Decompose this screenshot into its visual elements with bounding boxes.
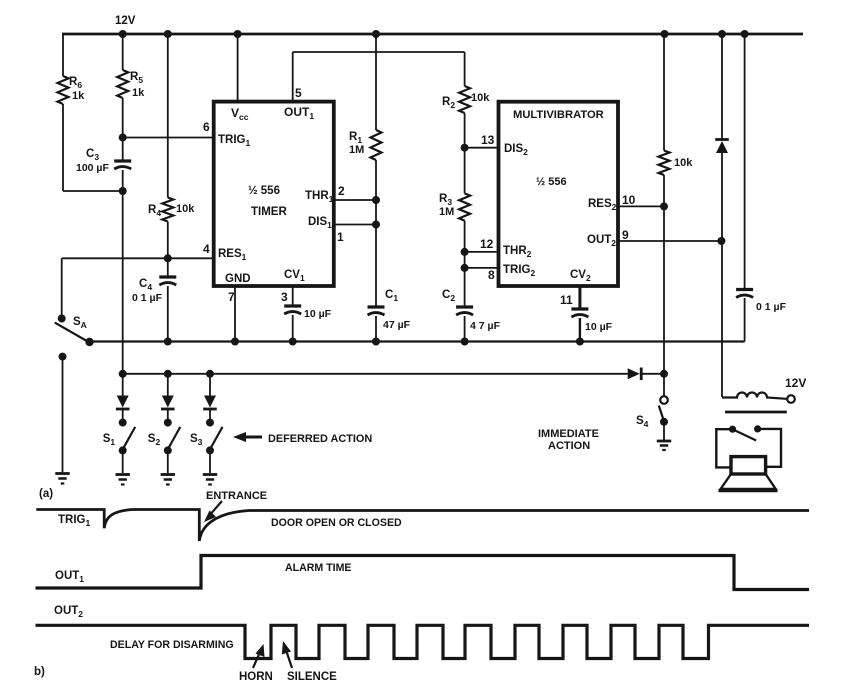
wire relay contact right to horn bbox=[758, 429, 781, 467]
svg-text:TIMER: TIMER bbox=[251, 206, 287, 218]
svg-text:½ 556: ½ 556 bbox=[248, 185, 280, 197]
pin number 4 bbox=[203, 242, 210, 256]
capacitor C4 bbox=[159, 277, 176, 285]
capacitor 0.1uF bbox=[736, 290, 753, 298]
wire OUT1 riser bbox=[292, 52, 294, 102]
waveform OUT2 bbox=[36, 625, 810, 658]
label SILENCE bbox=[287, 671, 337, 683]
wire R4 to RES node bbox=[167, 222, 169, 259]
junction top bus / diode D5 bbox=[718, 30, 726, 38]
junction C1 / ground bus bbox=[372, 338, 380, 346]
wire C3 bottom bbox=[122, 170, 124, 191]
label R2 bbox=[442, 96, 455, 110]
wire bus to diode D3 bbox=[209, 374, 211, 396]
wire S4 node to terminal bbox=[663, 374, 665, 396]
resistor R3 1M bbox=[459, 193, 470, 220]
wire TRIG1 bbox=[123, 137, 214, 139]
svg-text:8: 8 bbox=[488, 268, 495, 282]
label 10k right bbox=[674, 157, 693, 169]
wire R3 to THR2 node bbox=[464, 221, 466, 252]
label R4 bbox=[148, 204, 161, 218]
ground symbol S1 bbox=[116, 475, 130, 485]
pin number 10 bbox=[622, 193, 636, 207]
switch S1 top dot bbox=[119, 419, 127, 427]
junction GND / ground bus bbox=[231, 338, 239, 346]
label TRIG2 pin bbox=[503, 264, 535, 278]
wire CV1 to cap bbox=[292, 286, 294, 307]
svg-text:1M: 1M bbox=[439, 206, 454, 218]
switch S3 top dot bbox=[206, 419, 214, 427]
pin number 1 bbox=[337, 230, 344, 244]
wire TRIG2 bbox=[465, 267, 499, 269]
capacitor CV1 10uF bbox=[284, 306, 301, 314]
wire S3 to ground bbox=[209, 450, 211, 473]
junction top bus / R5 bbox=[119, 30, 127, 38]
label OUT1 pin bbox=[284, 105, 314, 121]
junction deferred bus D3 bbox=[206, 370, 214, 378]
diode D2 bbox=[161, 396, 175, 410]
label half-556 bbox=[248, 185, 280, 197]
pin number 11 bbox=[560, 293, 573, 307]
wire DIS1 bbox=[334, 224, 376, 226]
switch S3 blade bbox=[209, 427, 222, 451]
relay contact blade bbox=[733, 429, 757, 440]
wire RES1 corner down to SA bbox=[61, 258, 63, 318]
capacitor C3 bbox=[114, 161, 131, 169]
junction R4/C4 on RES1 wire bbox=[164, 254, 172, 262]
junction THR1 node bbox=[372, 196, 380, 204]
wire 10k to RES2 node bbox=[663, 175, 665, 206]
wire DIS2 bbox=[465, 147, 499, 149]
svg-text:4: 4 bbox=[203, 242, 210, 256]
svg-text:DOOR OPEN OR CLOSED: DOOR OPEN OR CLOSED bbox=[271, 517, 402, 529]
junction deferred bus D2 bbox=[164, 370, 172, 378]
junction deferred bus D1 bbox=[119, 370, 127, 378]
junction C2 / ground bus bbox=[461, 338, 469, 346]
label RES2 pin bbox=[588, 198, 617, 212]
label (b) bbox=[34, 666, 45, 678]
junction TRIG2 node bbox=[461, 264, 469, 272]
wire R1 to THR node bbox=[375, 160, 377, 200]
label R5 bbox=[130, 71, 143, 85]
junction C4 / ground bus bbox=[164, 338, 172, 346]
svg-text:0 1 µF: 0 1 µF bbox=[132, 292, 163, 304]
label DIS1 pin bbox=[308, 216, 332, 230]
svg-text:DEFERRED ACTION: DEFERRED ACTION bbox=[268, 433, 372, 445]
wire THR2 bbox=[465, 251, 499, 253]
svg-text:3: 3 bbox=[281, 290, 288, 304]
switch S4 open terminal bbox=[660, 396, 668, 404]
junction top bus / R1 bbox=[372, 30, 380, 38]
junction CV2 / ground bus bbox=[576, 338, 584, 346]
svg-text:ACTION: ACTION bbox=[548, 440, 590, 452]
label DELAY FOR DISARMING bbox=[110, 639, 234, 651]
diode D1 bbox=[116, 396, 130, 410]
junction top bus / R4 bbox=[164, 30, 172, 38]
pin number 13 bbox=[481, 133, 495, 147]
node 12V supply label bbox=[115, 15, 136, 27]
label S4 bbox=[636, 415, 649, 429]
label C2 value 47uF bbox=[470, 320, 501, 332]
label S1 bbox=[103, 433, 116, 447]
label C4 bbox=[139, 278, 152, 292]
svg-text:ENTRANCE: ENTRANCE bbox=[206, 490, 267, 502]
wire 0.1uF to ground bus bbox=[744, 298, 746, 342]
svg-text:10: 10 bbox=[622, 193, 636, 207]
wire ground bus bbox=[89, 340, 745, 342]
wire relay contact left to horn bbox=[716, 429, 732, 467]
switch S1 bottom dot bbox=[119, 446, 127, 454]
switch S3 bottom dot bbox=[206, 446, 214, 454]
horn cone mouth bbox=[719, 489, 778, 492]
arrow silence bbox=[282, 641, 292, 668]
svg-text:100 µF: 100 µF bbox=[76, 162, 109, 174]
resistor R2 10k bbox=[459, 86, 470, 113]
svg-text:DELAY FOR DISARMING: DELAY FOR DISARMING bbox=[110, 639, 234, 651]
wire OUT1 to R2 top bbox=[293, 51, 465, 53]
svg-text:ALARM TIME: ALARM TIME bbox=[285, 562, 352, 574]
svg-text:10k: 10k bbox=[674, 157, 693, 169]
junction top bus / 10k right bbox=[661, 30, 669, 38]
junction CV1 / ground bus bbox=[289, 338, 297, 346]
resistor R1 1M bbox=[371, 130, 382, 160]
svg-text:1M: 1M bbox=[349, 144, 364, 156]
svg-text:1: 1 bbox=[337, 230, 344, 244]
wire diode D2 to switch S2 bbox=[167, 410, 169, 423]
switch SA terminal dot bbox=[58, 315, 66, 323]
label THR2 pin bbox=[503, 245, 532, 259]
pin number 5 bbox=[295, 86, 302, 100]
label TIMER bbox=[251, 206, 287, 218]
label CV2 value 10uF bbox=[585, 321, 613, 333]
label R1 bbox=[349, 131, 362, 145]
wire OUT2 bbox=[618, 240, 721, 242]
diode D4 immediate bbox=[628, 368, 642, 381]
label OUT2 waveform bbox=[54, 605, 83, 619]
label R3 value 1M bbox=[439, 206, 454, 218]
wire RES2 node down to S4 bbox=[663, 206, 665, 373]
svg-text:1k: 1k bbox=[72, 90, 85, 102]
pin number 12 bbox=[480, 237, 494, 251]
junction SA pivot on ground bus bbox=[85, 338, 93, 346]
wire R2 riser bbox=[464, 52, 466, 86]
waveform OUT1 bbox=[36, 556, 810, 590]
svg-text:13: 13 bbox=[481, 133, 495, 147]
label C1 value 47uF bbox=[383, 319, 411, 331]
junction S4 node bbox=[660, 370, 668, 378]
ground symbol S3 bbox=[203, 475, 217, 485]
switch S4 bottom dot bbox=[660, 418, 668, 426]
svg-text:4 7 µF: 4 7 µF bbox=[470, 320, 501, 332]
wire bus to diode D1 bbox=[122, 374, 124, 396]
label S3 bbox=[190, 433, 203, 447]
resistor R4 10k bbox=[162, 198, 173, 222]
arrow deferred action bbox=[233, 432, 262, 442]
svg-text:b): b) bbox=[34, 666, 45, 678]
node relay 12V terminal bbox=[787, 395, 795, 403]
label RES1 pin bbox=[218, 248, 247, 262]
wire CV1 cap to bus bbox=[292, 315, 294, 342]
label ALARM TIME bbox=[285, 562, 352, 574]
label C3 bbox=[86, 148, 99, 162]
label ENTRANCE bbox=[206, 490, 267, 502]
wire CV2 cap to bus bbox=[579, 318, 581, 342]
wire THR1 bbox=[334, 199, 376, 201]
label R6 value 1k bbox=[72, 90, 85, 102]
label half-556 U2 bbox=[536, 176, 567, 188]
wire R2 to DIS2 node bbox=[464, 113, 466, 148]
svg-text:47 µF: 47 µF bbox=[383, 319, 411, 331]
svg-text:(a): (a) bbox=[39, 488, 53, 500]
ground symbol SA bbox=[55, 474, 69, 484]
wire bus to R4 bbox=[167, 34, 169, 198]
wire RES1 to left bbox=[62, 257, 214, 259]
label Vcc pin bbox=[231, 106, 249, 122]
wire diode D3 to switch S3 bbox=[209, 410, 211, 423]
label S2 bbox=[148, 433, 161, 447]
svg-text:10 µF: 10 µF bbox=[304, 308, 332, 320]
horn body bbox=[731, 457, 766, 474]
pin number 6 bbox=[203, 120, 210, 134]
svg-text:9: 9 bbox=[622, 228, 629, 242]
wire diode D5 to OUT2 node bbox=[721, 153, 723, 241]
resistor R6 bbox=[58, 76, 69, 104]
wire SA lower to ground bbox=[62, 357, 64, 472]
relay contact right dot bbox=[754, 425, 761, 432]
diode D3 bbox=[203, 396, 217, 410]
wire bus to R5 bbox=[122, 34, 124, 70]
junction DIS2 node bbox=[461, 144, 469, 152]
svg-text:HORN: HORN bbox=[239, 671, 273, 683]
label THR1 pin bbox=[305, 190, 334, 204]
label GND pin bbox=[225, 273, 251, 285]
svg-text:10 µF: 10 µF bbox=[585, 321, 613, 333]
label (a) bbox=[39, 488, 53, 500]
label OUT2 pin bbox=[587, 234, 616, 248]
svg-text:0 1 µF: 0 1 µF bbox=[756, 301, 787, 313]
svg-text:MULTIVIBRATOR: MULTIVIBRATOR bbox=[513, 109, 604, 121]
label C2 bbox=[442, 289, 455, 303]
wire top bus to R6 bbox=[62, 33, 64, 76]
label HORN bbox=[239, 671, 273, 683]
wire C4 to ground bus bbox=[167, 286, 169, 342]
wire deferred bus bbox=[123, 373, 628, 375]
junction TRIG1 node bbox=[119, 134, 127, 142]
wire DIS2 node to R3 bbox=[464, 148, 466, 194]
junction RES2 / 10k bbox=[660, 202, 668, 210]
svg-text:6: 6 bbox=[203, 120, 210, 134]
relay armature bar bbox=[725, 411, 787, 414]
ground symbol S4 bbox=[657, 441, 671, 450]
label SA bbox=[73, 316, 87, 330]
wire THR2 to TRIG2 node bbox=[464, 252, 466, 268]
svg-text:11: 11 bbox=[560, 293, 573, 307]
wire THR to DIS node bbox=[375, 200, 377, 225]
ground symbol S2 bbox=[161, 475, 175, 485]
label C3 value 100uF bbox=[76, 162, 109, 174]
relay coil K1 bbox=[722, 393, 787, 399]
junction DIS1 node bbox=[372, 221, 380, 229]
label 0.1uF value bbox=[756, 301, 787, 313]
svg-text:1k: 1k bbox=[132, 87, 145, 99]
switch S4 blade bbox=[659, 406, 664, 421]
label CV1 pin bbox=[284, 269, 305, 283]
resistor R5 bbox=[117, 70, 128, 98]
junction C3 bottom node bbox=[119, 187, 127, 195]
op-amp U1 timer box bbox=[214, 102, 334, 286]
pin number 7 bbox=[228, 290, 235, 304]
label C4 value 0.1uF bbox=[132, 292, 163, 304]
wire S1 to ground bbox=[122, 450, 124, 473]
wire bus to diode D5 bbox=[721, 34, 723, 139]
label R6 bbox=[69, 76, 82, 90]
label OUT1 waveform bbox=[55, 570, 84, 584]
wire C1 to ground bus bbox=[375, 316, 377, 342]
wire S2 to ground bbox=[167, 450, 169, 473]
wire TRIG2 node to C2 bbox=[464, 268, 466, 308]
wire S4 to ground bbox=[663, 422, 665, 440]
switch S2 bottom dot bbox=[164, 446, 172, 454]
wire C3 node down to deferred bus bbox=[122, 191, 124, 374]
wire R5 to TRIG node bbox=[122, 98, 124, 138]
svg-text:12V: 12V bbox=[115, 15, 136, 27]
svg-text:½ 556: ½ 556 bbox=[536, 176, 567, 188]
wire OUT2 node to relay coil bbox=[721, 241, 723, 397]
svg-text:5: 5 bbox=[295, 86, 302, 100]
wire RES node to C4 bbox=[167, 258, 169, 278]
label TRIG1 waveform bbox=[58, 514, 90, 528]
wire DIS node to C1 bbox=[375, 225, 377, 309]
junction THR2 node bbox=[461, 248, 469, 256]
label R1 value 1M bbox=[349, 144, 364, 156]
switch S1 blade bbox=[122, 427, 135, 451]
wire diode D1 to switch S1 bbox=[122, 410, 124, 423]
wire Vcc riser bbox=[237, 34, 239, 102]
wire R6 bottom to C3 node bbox=[63, 190, 123, 192]
resistor 10k right bbox=[659, 151, 670, 176]
label R5 value 1k bbox=[132, 87, 145, 99]
svg-text:10k: 10k bbox=[471, 92, 490, 104]
arrow entrance bbox=[204, 501, 222, 522]
waveform TRIG1 bbox=[36, 510, 809, 542]
pin number 3 bbox=[281, 290, 288, 304]
wire bus to R1 bbox=[375, 34, 377, 130]
wire RES2 bbox=[618, 205, 664, 207]
svg-text:7: 7 bbox=[228, 290, 235, 304]
junction OUT2 / diode line bbox=[717, 237, 725, 245]
svg-text:SILENCE: SILENCE bbox=[287, 671, 337, 683]
pin number 9 bbox=[622, 228, 629, 242]
op-amp U2 multivibrator box bbox=[499, 102, 619, 286]
wire bus to 0.1uF cap bbox=[744, 34, 746, 291]
wire 12V top bus bbox=[62, 33, 803, 36]
wire bus to 10k bbox=[663, 34, 665, 151]
junction top bus / Vcc bbox=[234, 30, 242, 38]
switch SA blade bbox=[55, 323, 90, 343]
junction top bus / 0.1uF bbox=[741, 30, 749, 38]
label C1 bbox=[385, 289, 398, 303]
arrow horn bbox=[253, 644, 265, 668]
label CV1 value 10uF bbox=[304, 308, 332, 320]
pin number 2 bbox=[338, 184, 345, 198]
label DOOR OPEN OR CLOSED bbox=[271, 517, 402, 529]
wire diode D4 to S4 node bbox=[642, 373, 664, 375]
capacitor CV2 10uF bbox=[571, 309, 588, 317]
wire TRIG node to C3 bbox=[122, 138, 124, 163]
pin number 8 bbox=[488, 268, 495, 282]
capacitor C2 bbox=[456, 307, 473, 315]
svg-text:2: 2 bbox=[338, 184, 345, 198]
label relay 12V bbox=[785, 376, 806, 390]
wire R6 bottom down bbox=[62, 104, 64, 191]
wire GND pin to bus bbox=[234, 286, 236, 342]
wire CV2 to cap bbox=[578, 286, 581, 310]
svg-text:12: 12 bbox=[480, 237, 494, 251]
label DIS2 pin bbox=[504, 143, 528, 157]
label R4 value 10k bbox=[176, 203, 195, 215]
relay contact left dot bbox=[729, 426, 736, 433]
svg-text:10k: 10k bbox=[176, 203, 195, 215]
label R3 bbox=[439, 193, 452, 207]
svg-text:GND: GND bbox=[225, 273, 251, 285]
svg-text:IMMEDIATE: IMMEDIATE bbox=[538, 428, 599, 440]
wire C2 to ground bus bbox=[464, 316, 466, 342]
node SA lower terminal bbox=[59, 353, 67, 361]
label DEFERRED ACTION bbox=[268, 433, 372, 445]
label TRIG1 pin bbox=[218, 134, 250, 148]
capacitor C1 bbox=[368, 307, 385, 315]
label R2 value 10k bbox=[471, 92, 490, 104]
diode D5 cathode-up bbox=[715, 140, 729, 154]
label CV2 pin bbox=[570, 269, 591, 283]
svg-text:12V: 12V bbox=[785, 376, 806, 390]
wire bus to diode D2 bbox=[167, 374, 169, 396]
switch S2 top dot bbox=[164, 419, 172, 427]
switch S2 blade bbox=[167, 427, 180, 451]
label MULTIVIBRATOR bbox=[513, 109, 604, 121]
label IMMEDIATE ACTION bbox=[538, 428, 599, 452]
horn cone bbox=[721, 474, 776, 489]
